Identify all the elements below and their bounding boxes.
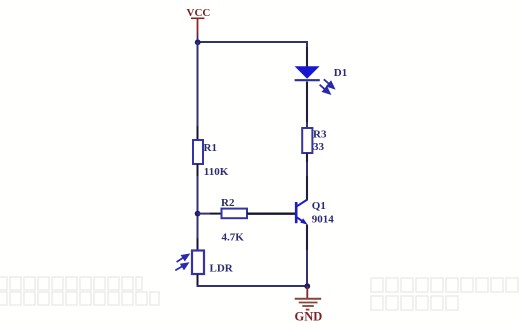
- wire: Q1 emitter pin: [306, 225, 308, 250]
- wire: right rail lower segment: [306, 250, 308, 286]
- wire: R1 pin 2 stub: [196, 164, 198, 176]
- watermark bottom-left line 1: [0, 277, 142, 290]
- svg-text:R3: R3: [313, 129, 327, 141]
- wire: branch to R2: [198, 213, 211, 215]
- node: junction at GND: [304, 283, 310, 289]
- svg-text:GND: GND: [295, 310, 323, 324]
- resistor R3: [302, 128, 312, 153]
- wire: LED cathode pin: [306, 82, 308, 122]
- svg-text:R2: R2: [221, 197, 235, 209]
- wire: top horizontal net VCC: [197, 41, 309, 43]
- resistor R2: [222, 209, 248, 219]
- wire: left rail middle segment: [197, 176, 199, 238]
- wire: bottom horizontal net: [197, 285, 308, 287]
- svg-text:LDR: LDR: [210, 262, 234, 274]
- svg-text:4.7K: 4.7K: [222, 232, 245, 244]
- LDR light arrow 2: [175, 263, 187, 270]
- watermark bottom-right line 2: [371, 296, 458, 310]
- wire: net R3 to Q1 collector: [306, 162, 308, 176]
- transistor Q1 collector lead: [297, 200, 308, 207]
- svg-text:110K: 110K: [204, 166, 229, 178]
- wire: LDR pin 1 stub: [196, 238, 198, 250]
- wire: net R2 to Q1 base: [247, 213, 295, 215]
- LED D1 emission arrow 2: [320, 85, 330, 94]
- node: junction at VCC rail: [195, 39, 201, 45]
- wire: Q1 base pin: [247, 212, 295, 214]
- node: junction at R2 branch: [195, 211, 201, 217]
- wire: left rail upper segment: [197, 42, 199, 126]
- resistor R1: [193, 140, 203, 164]
- power symbol VCC: [187, 7, 211, 42]
- svg-text:D1: D1: [334, 67, 347, 79]
- LED D1 emission arrow 1: [324, 79, 334, 88]
- watermark bottom-left line 2: [0, 292, 159, 305]
- svg-text:33: 33: [313, 141, 325, 153]
- svg-text:VCC: VCC: [187, 7, 211, 19]
- LED D1 cathode bar: [295, 79, 320, 81]
- wire: R2 pin 1 stub: [210, 213, 222, 215]
- LDR light arrow 1: [177, 255, 189, 262]
- transistor Q1 base bar: [295, 202, 298, 223]
- wire: Q1 collector pin: [306, 176, 308, 200]
- svg-text:9014: 9014: [312, 214, 335, 226]
- wire: R1 pin 1 stub: [196, 126, 198, 140]
- ground GND: [295, 286, 323, 324]
- photoresistor LDR: [192, 251, 204, 275]
- transistor Q1 emitter arrowhead: [300, 218, 307, 224]
- svg-text:Q1: Q1: [312, 200, 326, 212]
- wire: LDR pin 2 stub: [196, 274, 198, 285]
- transistor Q1 emitter lead: [297, 217, 305, 223]
- svg-text:R1: R1: [204, 142, 217, 154]
- LED D1 triangle: [295, 66, 320, 79]
- wire: R3 pin 2 stub: [306, 153, 308, 162]
- wire: net LED to R3: [306, 122, 308, 128]
- wire: LED D1 anode pin: [306, 47, 308, 67]
- wire: right rail corner stub: [306, 41, 308, 47]
- watermark bottom-right line 1: [371, 278, 518, 292]
